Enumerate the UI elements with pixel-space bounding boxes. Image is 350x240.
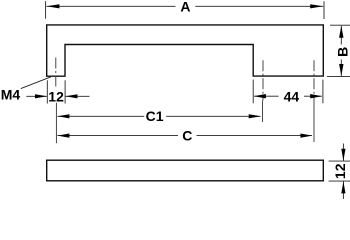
svg-text:B: B: [334, 47, 350, 57]
centerline left leg hole: [55, 58, 58, 144]
dimension B: [327, 25, 350, 76]
centerline right hole 2: [313, 60, 315, 103]
dimension 12 (left leg width): [26, 80, 89, 104]
svg-text:M4: M4: [1, 87, 21, 103]
svg-text:C1: C1: [146, 108, 164, 124]
svg-text:C: C: [182, 128, 192, 144]
handle bar (side view): [47, 160, 324, 181]
svg-text:12: 12: [332, 163, 348, 179]
label M4 with leader: [1, 77, 51, 103]
handle profile outline (front view): [47, 25, 324, 76]
dimension 12 (bar thickness): [329, 144, 350, 200]
svg-text:A: A: [180, 0, 190, 14]
dimension C1: [57, 108, 260, 124]
dimension C: [57, 128, 312, 144]
svg-text:44: 44: [284, 88, 300, 104]
centerline right hole 1: [262, 60, 264, 100]
svg-text:12: 12: [48, 88, 64, 104]
dimension 44 (right leg width): [253, 80, 323, 105]
dimension A: [46, 0, 324, 19]
